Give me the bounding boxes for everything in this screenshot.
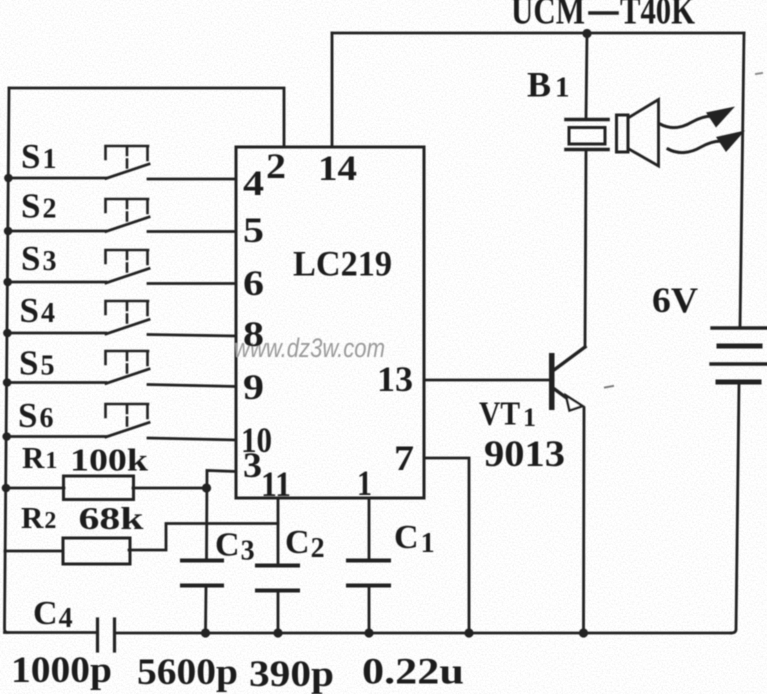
wire pin 7 down to bottom rail	[424, 458, 469, 633]
wire S5 to pin 9	[148, 385, 236, 387]
wire top-left rail to pin 2	[9, 88, 284, 147]
switch S3	[106, 250, 150, 283]
node emitter bottom	[579, 628, 588, 637]
svg-text:7: 7	[394, 438, 414, 478]
wire bottom rail	[115, 632, 731, 635]
svg-text:2: 2	[266, 146, 286, 186]
switch S4	[106, 301, 150, 334]
switch S1	[106, 146, 150, 179]
node R1 / pin3 / C3	[202, 483, 211, 492]
artifact dash 2	[756, 73, 762, 74]
node C3 bottom	[201, 628, 210, 637]
wire pin 3 to node and C3	[207, 471, 237, 561]
svg-text:8: 8	[243, 314, 264, 354]
node pin7 bottom	[464, 628, 473, 637]
wire C3 to bottom rail	[204, 587, 207, 633]
wire left rail	[5, 88, 10, 633]
battery GB 6V	[711, 328, 767, 382]
sound wave arrow 2	[668, 131, 745, 153]
wire C2 to bottom rail	[277, 592, 280, 633]
wire emitter to bottom rail	[582, 408, 585, 633]
wire piezo to collector	[585, 151, 586, 347]
wire top rail	[332, 32, 744, 35]
wire S4 to pin 8	[148, 335, 236, 337]
wire S1 to pin 4	[148, 178, 236, 181]
svg-text:5: 5	[243, 210, 264, 250]
svg-text:11: 11	[261, 464, 291, 504]
svg-text:1000p: 1000p	[11, 650, 112, 691]
svg-text:6V: 6V	[652, 280, 698, 320]
svg-text:5600p: 5600p	[137, 652, 238, 693]
wire rail to S5	[7, 381, 106, 384]
wire rail to S1	[8, 177, 106, 180]
wire rail to S6	[7, 435, 106, 438]
svg-text:3: 3	[243, 445, 262, 485]
node C1 bottom	[364, 628, 373, 637]
wire S3 to pin 6	[148, 282, 236, 285]
sound wave arrow 1	[660, 107, 735, 128]
svg-text:1: 1	[523, 403, 536, 432]
svg-text:T40K: T40K	[620, 0, 696, 33]
svg-text:9013: 9013	[484, 434, 565, 475]
switch S6	[106, 404, 150, 437]
wire pin 14 vertical	[331, 33, 334, 147]
artifact dash	[605, 386, 613, 388]
speaker horn	[617, 100, 659, 167]
wire right rail	[740, 33, 744, 328]
wire top rail to piezo B1	[586, 33, 587, 117]
svg-text:13: 13	[377, 359, 413, 399]
node S1 left rail	[4, 174, 13, 183]
resistor R2	[63, 538, 130, 564]
wire bottom rail left of C4	[5, 631, 98, 634]
switch S5	[106, 351, 150, 384]
wire R2 jog to pin11/C2 node	[129, 524, 278, 551]
wire battery to bottom rail	[731, 382, 739, 633]
node S4 left rail	[3, 329, 12, 338]
svg-text:0.22u: 0.22u	[362, 652, 464, 693]
node C2 bottom	[273, 628, 282, 637]
capacitor C1	[348, 561, 389, 586]
wire R1 to node	[133, 487, 207, 490]
wire S2 to pin 5	[148, 230, 236, 233]
node S6 left rail	[2, 432, 11, 441]
switch S2	[106, 199, 150, 232]
svg-text:68k: 68k	[79, 500, 144, 536]
svg-text:4: 4	[243, 163, 264, 203]
svg-text:VT: VT	[479, 396, 520, 433]
svg-text:9: 9	[243, 367, 264, 407]
svg-text:390p: 390p	[249, 654, 334, 694]
wire S6 to pin 10	[148, 438, 236, 440]
node S2 left rail	[4, 227, 13, 236]
svg-text:14: 14	[318, 148, 357, 188]
capacitor C3	[182, 561, 222, 586]
piezo transducer B1	[566, 120, 608, 150]
wire C1 to bottom rail	[368, 587, 371, 633]
IC U1 LC219 box	[236, 147, 424, 498]
capacitor C2	[257, 566, 298, 591]
svg-text:LC219: LC219	[293, 244, 392, 284]
resistor R1	[64, 476, 134, 500]
svg-text:100k: 100k	[70, 442, 148, 478]
wire rail to R2	[5, 550, 63, 553]
svg-text:UCM: UCM	[511, 0, 585, 33]
wire rail to S2	[8, 230, 106, 233]
node S5 left rail	[3, 378, 12, 387]
capacitor C4	[98, 619, 115, 651]
wire rail to S3	[8, 281, 106, 284]
svg-text:6: 6	[243, 263, 264, 303]
wire rail to S4	[7, 332, 106, 335]
transistor VT1	[549, 347, 585, 411]
node S3 left rail	[3, 278, 12, 287]
wire pin 13 to base	[424, 379, 549, 382]
wire pin 11 to C2	[277, 498, 280, 565]
node top rail / B1 junction	[582, 29, 591, 38]
wire pin 1 to C1	[368, 498, 371, 560]
node R1 left rail	[2, 484, 11, 493]
wire rail to R1	[6, 487, 64, 490]
